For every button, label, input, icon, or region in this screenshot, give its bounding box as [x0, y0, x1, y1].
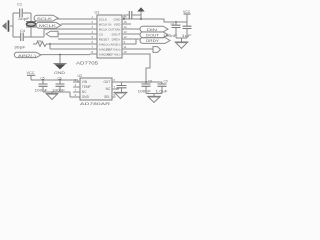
svg-text:AIN1(+): AIN1(+): [99, 42, 110, 46]
svg-text:SCLK: SCLK: [37, 17, 53, 21]
svg-text:CS: CS: [99, 32, 103, 36]
svg-text:30pF: 30pF: [14, 45, 26, 50]
svg-text:DIN: DIN: [115, 27, 120, 31]
svg-text:RESET: RESET: [99, 37, 109, 41]
svg-text:VCC: VCC: [27, 71, 35, 75]
svg-text:1uF: 1uF: [182, 34, 192, 38]
svg-text:16: 16: [124, 20, 128, 24]
svg-text:C4: C4: [20, 28, 26, 33]
svg-text:GND: GND: [114, 17, 122, 21]
svg-text:U2: U2: [78, 74, 83, 78]
svg-text:DOUT: DOUT: [112, 32, 121, 36]
svg-text:14: 14: [124, 25, 128, 29]
svg-text:C1: C1: [17, 2, 23, 7]
svg-text:10: 10: [124, 50, 128, 54]
svg-text:30pF: 30pF: [18, 16, 30, 21]
svg-text:MCLK: MCLK: [39, 24, 57, 28]
svg-text:DRDY: DRDY: [146, 39, 160, 43]
svg-text:DIN: DIN: [147, 28, 158, 32]
svg-text:VCC: VCC: [183, 10, 191, 14]
svg-text:MCLK IN: MCLK IN: [99, 22, 112, 26]
svg-text:C8: C8: [148, 79, 152, 83]
svg-text:AD7705: AD7705: [76, 61, 99, 66]
svg-text:MCLK OUT: MCLK OUT: [99, 27, 115, 31]
svg-text:13: 13: [124, 30, 128, 34]
svg-text:REF IN(-): REF IN(-): [107, 52, 120, 56]
svg-text:U1: U1: [95, 10, 101, 15]
svg-text:100nF: 100nF: [163, 34, 177, 38]
svg-text:TEMP: TEMP: [82, 85, 91, 89]
svg-text:REF IN(+): REF IN(+): [106, 47, 120, 51]
svg-text:AIN2(-): AIN2(-): [18, 54, 36, 58]
svg-text:AD780AR: AD780AR: [80, 101, 110, 106]
svg-text:SEL: SEL: [104, 95, 110, 99]
svg-text:11: 11: [124, 45, 127, 49]
svg-text:GND: GND: [54, 70, 65, 75]
svg-text:DRDY: DRDY: [112, 37, 121, 41]
svg-text:VDD: VDD: [114, 22, 121, 26]
svg-text:GND: GND: [82, 95, 90, 99]
svg-text:C9: C9: [164, 79, 168, 83]
svg-text:C2: C2: [171, 22, 175, 26]
svg-text:VIN: VIN: [82, 80, 88, 84]
svg-text:12: 12: [124, 35, 128, 39]
svg-text:DOUT: DOUT: [146, 34, 159, 38]
svg-text:NC: NC: [106, 87, 111, 91]
svg-text:SCLK: SCLK: [99, 17, 108, 21]
svg-text:AIN2(-): AIN2(-): [110, 42, 120, 46]
svg-text:NC: NC: [82, 90, 87, 94]
svg-text:OUT: OUT: [103, 80, 110, 84]
